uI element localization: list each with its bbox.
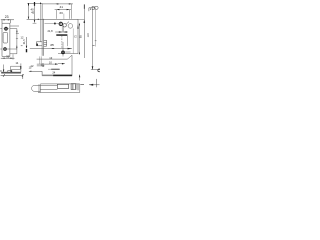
wire ext line 72 col bbox=[72, 28, 74, 53]
wire ext 41 right bbox=[71, 4, 73, 19]
wire ext pair below faceplate bbox=[40, 56, 41, 66]
wire aux line under 10 bbox=[37, 65, 45, 67]
node strike plate rounded tab bbox=[32, 85, 40, 91]
node bottom view small box bbox=[8, 70, 12, 72]
transistor cylinder hole pair bbox=[59, 22, 62, 25]
svg-text:21,8: 21,8 bbox=[47, 29, 53, 33]
svg-text:12: 12 bbox=[21, 35, 24, 39]
wire arrow blob on edge bbox=[37, 19, 39, 20]
resistor strike side bar dark bbox=[42, 75, 53, 77]
capacitor bolt circle bbox=[61, 51, 65, 55]
wire vert dim far right 1 bbox=[83, 5, 85, 59]
wire bottom right arrow line bbox=[89, 84, 100, 86]
node bottom view plate line 2 bbox=[1, 73, 21, 75]
node latch hole rect bbox=[57, 84, 68, 88]
wire vert dim far right 2 bbox=[92, 9, 94, 70]
node latch window bbox=[3, 32, 8, 43]
wire aux line above bar bbox=[48, 68, 60, 70]
wire vert dim far right 3 bbox=[95, 9, 97, 47]
wire bottom dim line bbox=[1, 75, 23, 77]
node latch bolt side view bbox=[36, 42, 42, 46]
wire follower dashed edge bbox=[61, 36, 63, 49]
node case side view bottom bbox=[58, 53, 78, 55]
wire plate inner right edge bbox=[77, 84, 79, 91]
capacitor screw hole top bbox=[5, 27, 8, 30]
wire dim line 32 bbox=[1, 57, 15, 59]
wire bottom right vert bbox=[96, 79, 98, 87]
svg-text:10: 10 bbox=[49, 60, 52, 64]
node faceplate front view outline bbox=[2, 19, 10, 56]
node case side view right edge bbox=[77, 19, 79, 53]
svg-text:23: 23 bbox=[5, 15, 9, 19]
svg-text:110: 110 bbox=[87, 33, 90, 37]
wire strike bar right edge bbox=[71, 55, 73, 76]
wire strike dim vert bbox=[79, 75, 81, 81]
svg-text:33: 33 bbox=[59, 11, 63, 15]
svg-text:24: 24 bbox=[52, 70, 55, 74]
wire right of bolt circle bbox=[65, 51, 70, 53]
resistor follower top bar bbox=[56, 34, 67, 36]
svg-text:85: 85 bbox=[80, 35, 83, 38]
svg-text:72: 72 bbox=[75, 35, 78, 38]
wire ext centerline up bbox=[63, 14, 65, 20]
wire bottom view dim vert bbox=[3, 65, 5, 73]
svg-text:13: 13 bbox=[49, 56, 52, 60]
wire vert dim x79.4 bbox=[78, 23, 80, 55]
wire centerline through rivet bbox=[45, 23, 59, 25]
svg-text:Ø5: Ø5 bbox=[50, 43, 54, 47]
node strike plate front outline bbox=[38, 84, 80, 93]
wire top cap line bbox=[27, 2, 42, 4]
node bottom view plate line thick bbox=[1, 71, 21, 73]
node bolt stack rungs bbox=[44, 40, 47, 46]
svg-text:45: 45 bbox=[31, 10, 35, 14]
node icon top right bracket bbox=[89, 8, 95, 11]
wire arrow 23 left bbox=[2, 19, 5, 20]
wire dim line 10 bbox=[37, 63, 65, 65]
node strike side lip bbox=[29, 71, 42, 75]
wire dim line 13 bbox=[37, 55, 72, 59]
wire tick on dim 110 bbox=[93, 41, 97, 46]
wire ext 33 left bbox=[56, 10, 58, 19]
wire follower solid edge bbox=[67, 36, 69, 46]
wire small dim from case top bbox=[16, 31, 17, 34]
wire dim line 41 bbox=[42, 3, 73, 5]
capacitor handle hole circle bbox=[68, 24, 73, 29]
node lock side view top edge bbox=[27, 18, 78, 20]
node strike inner lines bbox=[40, 85, 57, 89]
capacitor small circle right edge bbox=[98, 69, 101, 72]
capacitor screw hole bottom bbox=[4, 48, 7, 51]
wire dim 21,5 vertical bbox=[26, 37, 28, 48]
node bottom view case box bbox=[11, 63, 21, 72]
svg-text:41: 41 bbox=[59, 5, 63, 9]
wire leader slant bbox=[66, 22, 69, 25]
wire small dim above bottom hole bbox=[16, 45, 18, 49]
wire ext top right bbox=[78, 18, 85, 20]
node faceplate side view bbox=[42, 3, 44, 55]
svg-text:14: 14 bbox=[15, 61, 18, 65]
node case step profile left view bbox=[10, 26, 19, 54]
wire cylinder centerline vertical bbox=[62, 42, 64, 57]
wire bolt axis horizontal bbox=[30, 48, 72, 50]
svg-text:21,5: 21,5 bbox=[23, 39, 26, 44]
node deadbolt hole rect bbox=[71, 84, 76, 90]
wire dim line 23 bbox=[1, 19, 14, 21]
wire vert dim 40 bbox=[28, 3, 30, 19]
wire dim line 33 bbox=[55, 9, 71, 11]
wire tick top right of plate bbox=[80, 84, 84, 86]
wire vert ext 40.5 bbox=[40, 3, 42, 42]
wire dim under cylinder bbox=[55, 31, 68, 33]
wire faceplate top ext bbox=[33, 22, 37, 24]
node icon square bbox=[92, 7, 94, 10]
capacitor icon circle bbox=[95, 6, 98, 9]
wire right mid line to circle bbox=[91, 69, 100, 71]
wire vert dim 45 bbox=[34, 3, 36, 22]
wire ext 33 right bbox=[68, 10, 70, 19]
capacitor rivet circle bbox=[54, 23, 56, 25]
wire arrow 23 right bbox=[8, 19, 11, 20]
